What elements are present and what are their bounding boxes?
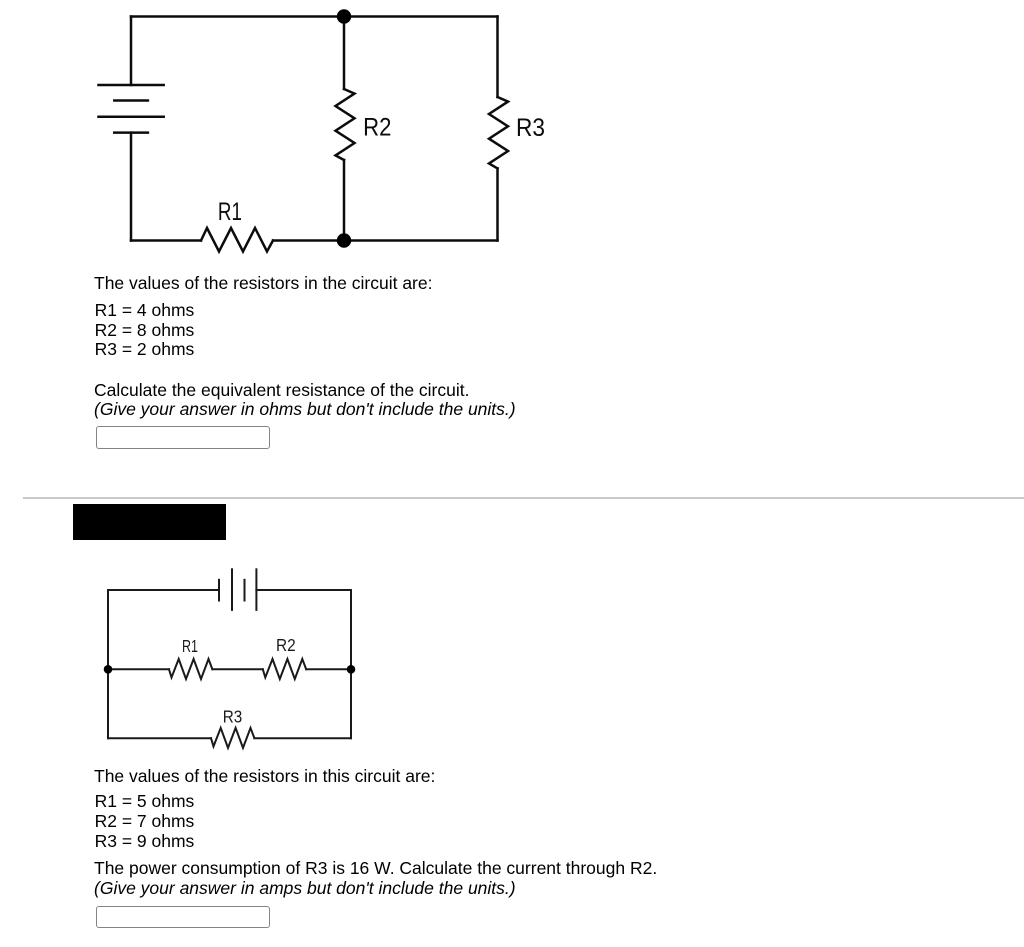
svg-text:R2: R2 — [363, 113, 391, 141]
svg-text:R3: R3 — [516, 114, 545, 142]
svg-text:R1: R1 — [182, 636, 198, 656]
svg-text:R1: R1 — [218, 198, 242, 226]
svg-text:R3: R3 — [223, 706, 243, 726]
svg-text:R2: R2 — [276, 635, 296, 655]
